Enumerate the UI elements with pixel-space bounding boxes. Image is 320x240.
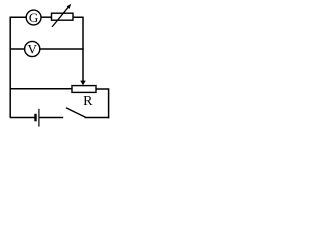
svg-text:G: G [29,10,38,25]
wire left vertical [9,17,11,118]
svg-text:R: R [83,94,93,109]
switch blade [66,108,86,118]
battery positive plate (long) [38,109,40,127]
wire left to resistor R [10,88,73,90]
wire rheostat to top-right corner down to wiper [73,17,83,81]
rheostat arrow [52,4,71,27]
wire switch to bottom-right corner [85,117,110,119]
voltmeter V [25,41,40,56]
wire galvanometer to rheostat [41,16,52,18]
wire top-left to galvanometer [10,16,27,18]
wire resistor R to right corner and down [96,89,109,118]
wire voltmeter to wiper node [40,48,84,50]
svg-text:V: V [28,42,38,57]
wire battery to switch [40,117,64,119]
galvanometer G [26,10,41,25]
rheostat (variable resistor) body [52,13,74,20]
battery negative plate (short) [34,114,36,122]
wire bottom-left to battery [10,117,35,119]
resistor R body [72,86,96,93]
wiper arrow into resistor R [80,81,86,86]
wire voltmeter branch left [10,48,25,50]
